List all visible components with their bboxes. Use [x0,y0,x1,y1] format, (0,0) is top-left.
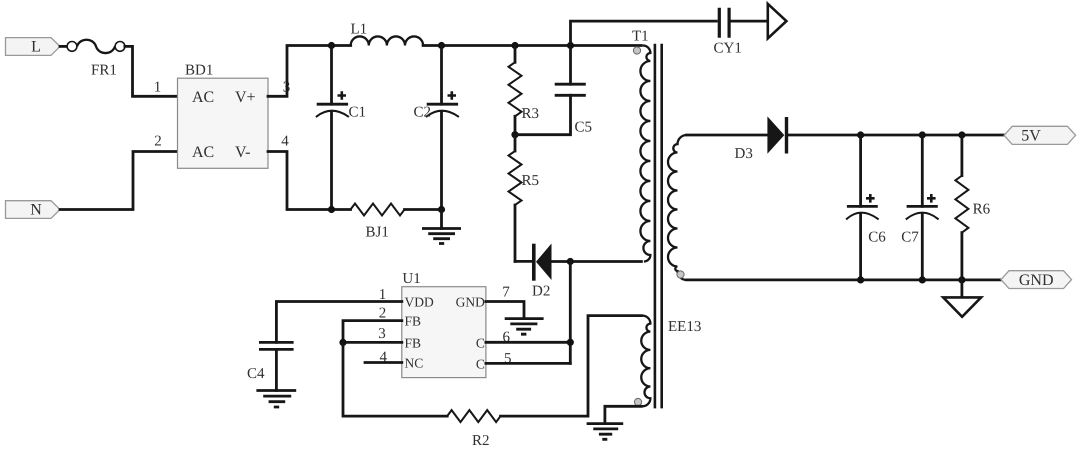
polarity dot aux [634,398,641,405]
capacitor C6 [859,135,862,206]
svg-text:AC: AC [192,144,214,161]
svg-text:1: 1 [154,79,162,95]
transformer core [655,44,662,409]
node 5V rail / C6 [857,131,864,138]
resistor R5 [514,135,517,151]
wire R2 net [343,342,447,416]
diode D3 [767,116,784,153]
resistor R3 [514,46,517,63]
terminal N [6,201,61,219]
terminal L [6,38,61,56]
wire R2 to aux winding [501,316,642,417]
resistor R2 [447,410,500,422]
svg-text:D2: D2 [532,284,550,300]
node FB junction [339,339,346,346]
svg-text:2: 2 [379,305,387,321]
svg-text:C6: C6 [868,230,886,246]
svg-text:FB: FB [405,335,422,350]
svg-text:R2: R2 [472,433,490,449]
fuse FR1 [67,42,77,52]
capacitor C7 [921,135,924,206]
wire C pin5 [486,362,570,365]
svg-text:AC: AC [192,89,214,106]
stub NC pin4 [365,361,402,364]
svg-text:C1: C1 [349,105,367,121]
svg-text:V-: V- [235,144,250,161]
svg-text:7: 7 [502,284,510,300]
inductor L1 [351,36,423,45]
svg-text:C7: C7 [901,230,919,246]
svg-text:NC: NC [405,355,424,370]
svg-text:4: 4 [281,134,289,150]
svg-text:FR1: FR1 [91,63,117,79]
capacitor C1 [330,46,333,105]
svg-text:V+: V+ [235,89,256,106]
svg-text:GND: GND [456,295,485,310]
capacitor C5 [569,46,572,85]
resistor R6 [961,135,964,176]
node top rail / C1 [328,42,335,49]
node D2/T1/U1 [567,258,574,265]
node pin6 junction [567,339,574,346]
svg-text:L: L [31,39,41,56]
svg-text:2: 2 [154,134,162,150]
IC U1 [402,287,486,378]
wire bottom rail right [405,208,442,211]
transformer T1 primary winding [640,46,650,262]
node gnd rail / C7 [919,276,926,283]
node gnd rail / R6-earth [958,276,965,283]
node 5V rail / C7 [919,131,926,138]
svg-text:C5: C5 [575,120,593,136]
wire FB pin3 [343,341,402,344]
node 5V rail / R6 [958,131,965,138]
svg-text:5V: 5V [1021,128,1041,145]
node top rail / C5-CY1 [567,42,574,49]
bridge rectifier BD1 [178,78,269,168]
wire secondary bottom rail [687,278,1001,281]
wire aux to ground [605,406,641,423]
svg-text:BJ1: BJ1 [366,225,389,241]
svg-text:R6: R6 [973,202,991,218]
svg-text:U1: U1 [402,271,420,287]
svg-text:3: 3 [378,326,386,342]
ground (aux winding) [587,424,624,440]
terminal 5V [1004,126,1076,144]
svg-text:L1: L1 [351,22,368,38]
wire secondary to D3 [687,134,768,137]
wire VDD to C4 [276,302,401,343]
ground (C4) [256,391,296,408]
svg-text:N: N [30,202,42,219]
svg-text:GND: GND [1019,272,1054,289]
capacitor C2 [440,46,443,105]
polarity dot primary [633,47,640,54]
svg-text:R3: R3 [522,106,540,122]
svg-text:C: C [476,356,485,371]
wire D3 to 5V [788,134,1004,137]
terminal GND [1001,271,1072,289]
earth symbol (secondary) [961,280,964,298]
node top rail / C2 [438,42,445,49]
capacitor C4 [259,342,294,349]
wire CY1 net [571,21,717,45]
diode D2 [532,244,536,281]
wire D2 node down to U1 pins [569,262,572,364]
wire BD1 pin3 to top rail [268,46,351,97]
svg-text:D3: D3 [735,146,753,162]
svg-text:T1: T1 [632,29,649,45]
node bottom rail / C1 [328,206,335,213]
svg-text:BD1: BD1 [185,63,213,79]
wire FB pin2 [343,321,402,343]
transformer T1 aux winding [641,316,650,407]
svg-text:EE13: EE13 [668,319,701,335]
node bottom rail / C2-ground [438,206,445,213]
svg-text:CY1: CY1 [714,41,742,57]
wire L to fuse [60,45,67,48]
svg-text:C2: C2 [413,105,431,121]
svg-text:FB: FB [405,314,422,329]
node R3/R5/C5 [511,131,518,138]
svg-text:R5: R5 [522,173,540,189]
ground (primary, under C2) [440,210,443,229]
wire GND pin7 [486,302,524,319]
node top rail / R3 [511,42,518,49]
transformer T1 secondary winding [668,135,687,280]
node gnd rail / C6 [857,276,864,283]
antenna arrow [768,4,787,39]
wire C pin6 [486,341,570,344]
ground (U1 GND pin) [505,319,544,335]
wire top rail [423,44,641,47]
svg-text:C4: C4 [247,366,265,382]
wire N to BD1 pin2 [60,152,178,210]
wire BD1 pin4 to bottom rail [268,152,351,210]
wire R5 to D2 [515,260,532,263]
svg-text:VDD: VDD [405,295,434,310]
polarity dot secondary [677,271,684,278]
capacitor CY1 [719,8,729,38]
resistor BJ1 [351,204,405,216]
wire fuse to BD1 pin1 [125,46,178,96]
svg-text:C: C [476,335,485,350]
